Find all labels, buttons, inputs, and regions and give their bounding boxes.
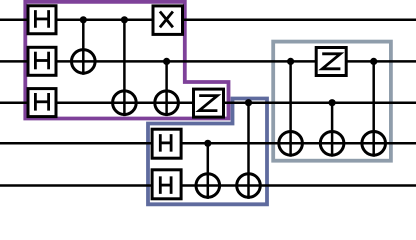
qubit wire q1 bbox=[0, 60, 416, 63]
H gate on q2 letter bbox=[35, 93, 48, 111]
Z gate on q1 letter bbox=[322, 54, 340, 69]
qubit wire q0 bbox=[0, 19, 416, 22]
CNOT q0-q1 vertical connector wire bbox=[82, 20, 85, 75]
H gate on q0 letter bbox=[35, 10, 48, 28]
CNOT q0-q1 control dot bbox=[80, 16, 87, 23]
CNOT q3-q4 control dot bbox=[204, 140, 211, 147]
CNOT q3-q4 vertical connector wire bbox=[207, 143, 210, 199]
CNOT q2-q3 col B vertical connector wire bbox=[331, 103, 334, 157]
CNOT q0-q2 control dot bbox=[121, 16, 128, 23]
qubit wire q4 bbox=[0, 184, 416, 187]
H gate on q3 letter bbox=[160, 134, 171, 152]
CNOT q1-q2 target bbox=[155, 91, 179, 115]
CNOT q2-q4 vertical connector wire bbox=[247, 103, 250, 199]
Z gate on q2 letter bbox=[199, 96, 217, 111]
H gate on q4 letter bbox=[160, 176, 171, 194]
CNOT q1-q3 col C target bbox=[362, 132, 386, 156]
slate-blue group box around bottom H/CNOT block bbox=[148, 99, 267, 205]
H gate on q2 box bbox=[28, 89, 56, 117]
X gate on q0 box bbox=[153, 6, 183, 35]
qubit wire q2 bbox=[0, 101, 416, 104]
CNOT q1-q2 control dot bbox=[163, 58, 170, 65]
CNOT q1-q3 col A target bbox=[279, 132, 303, 156]
CNOT q2-q4 control dot bbox=[245, 99, 252, 106]
CNOT q1-q2 vertical connector wire bbox=[165, 61, 168, 116]
CNOT q2-q3 col B target bbox=[320, 132, 344, 156]
purple group box around first H/CNOT/X/Z block bbox=[25, 2, 228, 119]
CNOT q2-q3 col B control dot bbox=[329, 99, 336, 106]
X gate on q0 letter bbox=[160, 12, 173, 28]
H gate on q0 box bbox=[28, 6, 56, 34]
CNOT q0-q1 target bbox=[72, 50, 96, 74]
gray group box around right CZ/CNOT block bbox=[273, 42, 391, 161]
H gate on q1 box bbox=[28, 47, 56, 75]
H gate on q3 box bbox=[152, 129, 181, 158]
CNOT q1-q3 col C control dot bbox=[370, 58, 377, 65]
CNOT q2-q4 target bbox=[237, 174, 261, 198]
Z gate on q1 box (right block) bbox=[316, 48, 346, 76]
H gate on q4 box bbox=[152, 170, 181, 199]
CNOT q1-q3 col A vertical connector wire bbox=[289, 61, 292, 156]
CNOT q1-q3 col A control dot bbox=[287, 58, 294, 65]
H gate on q1 letter bbox=[35, 52, 48, 70]
CNOT q3-q4 target bbox=[196, 174, 220, 198]
qubit wire q3 bbox=[0, 142, 416, 145]
CNOT q0-q2 target bbox=[113, 91, 137, 115]
Z gate on q2 box bbox=[194, 89, 224, 117]
CNOT q0-q2 vertical connector wire bbox=[123, 20, 126, 116]
CNOT q1-q3 col C vertical connector wire bbox=[372, 61, 375, 156]
